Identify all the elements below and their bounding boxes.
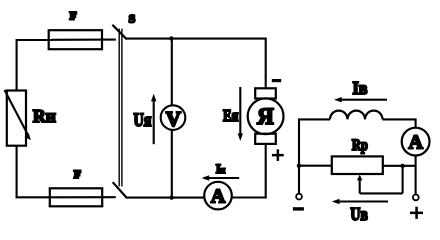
wire: top rail left segment bbox=[16, 39, 52, 41]
polarity plus (armature bottom) bbox=[272, 154, 284, 157]
wire: right vertical below ammeter A2 bbox=[415, 156, 417, 195]
svg-text:Iв: Iв bbox=[353, 78, 368, 98]
rheostat arrow through Rн bbox=[5, 90, 28, 134]
polarity plus (supply) bbox=[410, 212, 423, 215]
arrow: Ея (down) bbox=[239, 87, 241, 136]
wire: field circuit top rail left bbox=[298, 118, 330, 120]
wire: left vertical upper segment bbox=[16, 39, 18, 90]
wire: field circuit top rail right bbox=[383, 118, 417, 120]
resistor Rн (rheostat body) bbox=[7, 91, 26, 146]
ammeter A2 circle bbox=[402, 128, 430, 156]
svg-text:Eя: Eя bbox=[223, 106, 239, 125]
fuse F1 (top) bbox=[49, 30, 102, 49]
svg-text:Uя: Uя bbox=[134, 111, 152, 131]
svg-text:Uв: Uв bbox=[350, 204, 368, 224]
terminal: minus terminal circle bbox=[296, 194, 302, 200]
wire: bottom rail to ammeter A1 bbox=[127, 197, 205, 199]
svg-text:A: A bbox=[408, 132, 423, 154]
rheostat Rр wiper arrow (up) bbox=[357, 175, 363, 181]
switch S top blade bbox=[112, 25, 126, 40]
svg-text:я: я bbox=[220, 166, 225, 176]
wire: bottom rail left of fuse bbox=[16, 196, 52, 198]
svg-text:S: S bbox=[129, 12, 136, 26]
ammeter A1 circle bbox=[204, 182, 232, 210]
switch S linkage bar (double line) bbox=[118, 29, 120, 187]
svg-text:V: V bbox=[166, 107, 181, 131]
wire: wiper tap horizontal bbox=[360, 192, 403, 194]
arrow: Uя (up) bbox=[153, 99, 155, 144]
polarity minus (supply) bbox=[293, 207, 304, 210]
voltmeter U2 (V) circle bbox=[161, 105, 186, 130]
wire: motor branch lower (to bottom rail) bbox=[265, 144, 267, 199]
svg-text:F: F bbox=[70, 9, 77, 23]
wire: field circuit left vertical bbox=[298, 119, 300, 194]
svg-text:Rр: Rр bbox=[352, 137, 368, 154]
wire: left vertical lower segment bbox=[16, 146, 18, 199]
svg-text:Rн: Rн bbox=[33, 106, 56, 126]
motor armature M1: top brush bbox=[255, 88, 276, 98]
svg-text:Я: Я bbox=[257, 104, 274, 129]
wire: motor branch upper (from top rail) bbox=[265, 38, 267, 89]
wire: voltmeter branch upper bbox=[171, 39, 173, 106]
svg-text:A: A bbox=[211, 185, 226, 207]
wire: through fuse F2 to switch bbox=[52, 196, 116, 198]
node: junction bottom rail / voltmeter branch bbox=[169, 195, 173, 199]
wire: rail to rheostat Rр bbox=[299, 165, 332, 167]
switch S bottom blade bbox=[113, 182, 127, 198]
wire: right vertical above ammeter A2 bbox=[415, 119, 417, 128]
motor armature M1: rotor circle Я bbox=[248, 98, 284, 134]
wire: top rail right segment bbox=[126, 38, 266, 40]
node: junction tap corner on rail bbox=[400, 164, 404, 168]
inductor L1 (field winding) bbox=[330, 111, 383, 120]
terminal: plus terminal circle bbox=[413, 195, 419, 201]
arrow: Iя (left) bbox=[206, 177, 239, 179]
svg-text:F: F bbox=[74, 167, 81, 181]
arrow: Uв (left) bbox=[336, 200, 388, 202]
node: junction top rail / voltmeter branch bbox=[169, 36, 173, 40]
wire: bottom rail ammeter A1 to motor branch bbox=[232, 196, 267, 198]
motor armature M1: bottom brush bbox=[255, 134, 276, 144]
wire: wiper tap vertical to rail bbox=[402, 166, 404, 194]
wire: voltmeter branch lower bbox=[171, 129, 173, 197]
polarity minus (armature top) bbox=[272, 79, 281, 82]
node: junction field left vertical / Rр rail bbox=[297, 164, 301, 168]
resistor Rр (field rheostat body) bbox=[332, 156, 383, 174]
arrow: Iв (left) bbox=[338, 99, 387, 101]
wire: through fuse F1 to switch bbox=[52, 39, 116, 41]
fuse F2 (bottom) bbox=[50, 188, 102, 206]
wire: rheostat Rр to right vertical bbox=[383, 165, 417, 167]
